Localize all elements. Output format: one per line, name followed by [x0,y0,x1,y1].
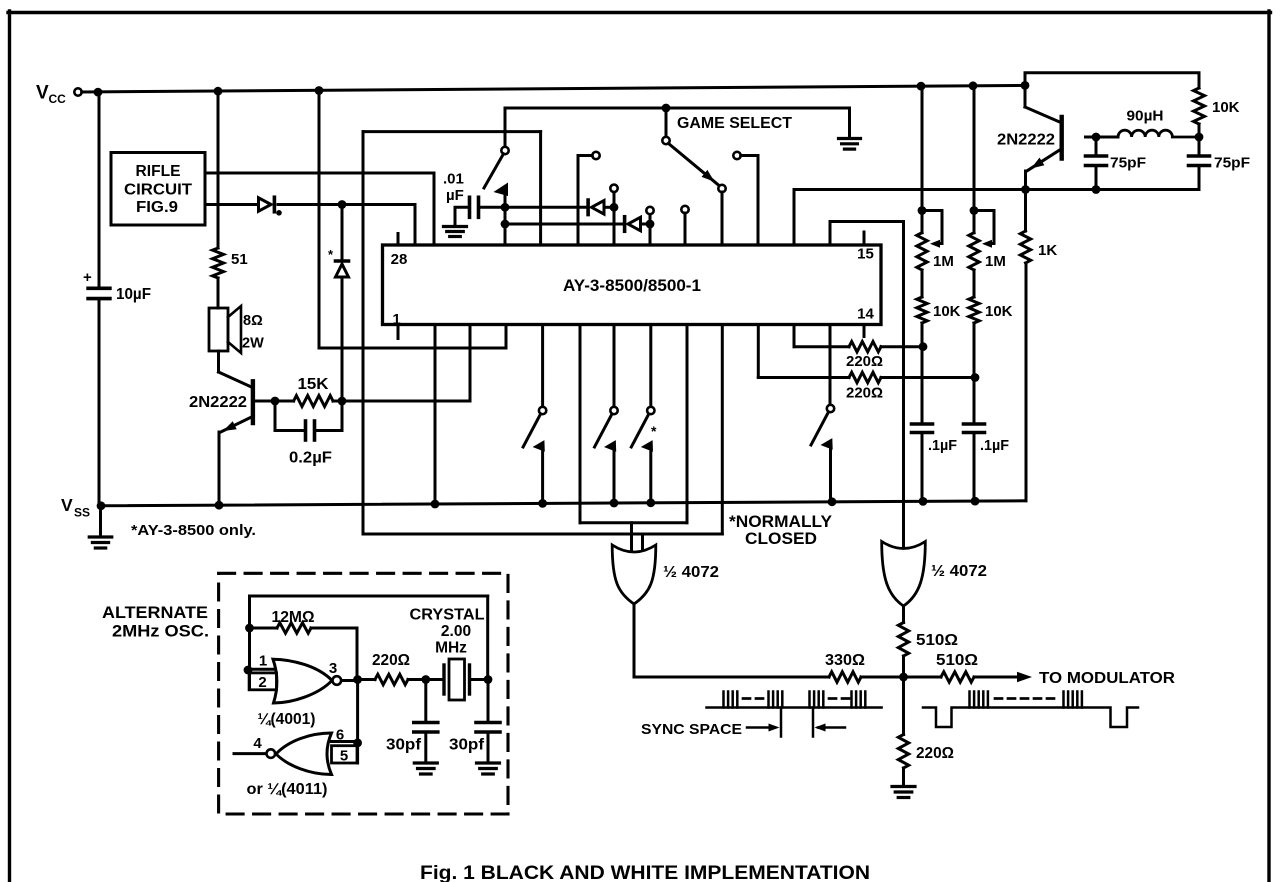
svg-text:10K: 10K [1212,99,1240,116]
svg-text:1M: 1M [933,253,954,270]
svg-text:1: 1 [392,311,400,328]
svg-text:½ 4072: ½ 4072 [663,564,719,581]
svg-text:15: 15 [857,246,874,263]
svg-text:2W: 2W [242,336,264,352]
svg-text:10K: 10K [985,303,1013,320]
svg-text:AY-3-8500/8500-1: AY-3-8500/8500-1 [563,276,701,295]
svg-text:2MHz OSC.: 2MHz OSC. [112,623,209,641]
svg-text:.01: .01 [443,171,464,188]
svg-text:.1µF: .1µF [928,437,957,454]
svg-text:CIRCUIT: CIRCUIT [124,182,193,199]
svg-text:CRYSTAL: CRYSTAL [410,607,485,624]
svg-text:51: 51 [231,251,248,268]
svg-text:*: * [651,423,657,439]
svg-text:0.2µF: 0.2µF [289,450,332,467]
svg-text:.1µF: .1µF [980,437,1009,454]
svg-text:SYNC SPACE: SYNC SPACE [641,721,742,738]
svg-text:V: V [36,83,49,104]
svg-text:SS: SS [74,506,90,520]
svg-text:¼(4001): ¼(4001) [258,711,316,728]
svg-text:75pF: 75pF [1214,155,1250,172]
svg-text:4: 4 [253,735,262,752]
svg-text:8Ω: 8Ω [243,313,263,329]
svg-text:90µH: 90µH [1127,108,1164,125]
svg-text:V: V [61,495,73,515]
svg-text:3: 3 [329,660,337,677]
svg-text:15K: 15K [298,376,330,393]
svg-text:ALTERNATE: ALTERNATE [102,604,208,622]
svg-text:30pf: 30pf [386,737,422,754]
svg-text:2: 2 [258,674,266,691]
svg-text:CC: CC [49,92,67,106]
svg-text:2N2222: 2N2222 [997,132,1055,149]
svg-text:5: 5 [340,748,348,765]
svg-text:*AY-3-8500 only.: *AY-3-8500 only. [131,522,256,539]
svg-text:330Ω: 330Ω [825,652,865,669]
svg-text:2.00: 2.00 [441,623,471,640]
svg-text:6: 6 [336,727,344,744]
svg-text:220Ω: 220Ω [372,652,410,669]
svg-text:*NORMALLY: *NORMALLY [729,513,832,531]
svg-text:TO MODULATOR: TO MODULATOR [1039,670,1175,687]
svg-text:220Ω: 220Ω [916,745,954,762]
svg-text:28: 28 [391,251,408,268]
svg-text:½ 4072: ½ 4072 [931,563,987,580]
svg-text:220Ω: 220Ω [846,385,883,402]
svg-text:GAME SELECT: GAME SELECT [677,115,793,132]
svg-text:1M: 1M [985,253,1006,270]
svg-text:1K: 1K [1038,242,1057,259]
svg-text:2N2222: 2N2222 [189,394,247,411]
svg-text:+: + [83,269,92,286]
svg-text:Fig. 1 BLACK AND WHITE IMPLEME: Fig. 1 BLACK AND WHITE IMPLEMENTATION [420,862,870,882]
svg-text:510Ω: 510Ω [936,652,978,669]
svg-text:14: 14 [857,306,874,323]
svg-text:CLOSED: CLOSED [745,530,817,548]
svg-text:12MΩ: 12MΩ [272,609,315,626]
svg-text:FIG.9: FIG.9 [136,199,178,216]
svg-text:µF: µF [446,187,464,204]
svg-text:30pf: 30pf [449,737,485,754]
svg-text:RIFLE: RIFLE [136,163,181,180]
svg-text:10K: 10K [933,303,961,320]
svg-text:75pF: 75pF [1110,155,1146,172]
svg-text:MHz: MHz [435,640,467,657]
svg-text:1: 1 [259,653,267,670]
svg-text:220Ω: 220Ω [846,353,883,370]
svg-text:510Ω: 510Ω [916,632,958,649]
svg-text:or ¼(4011): or ¼(4011) [247,781,328,798]
svg-text:10µF: 10µF [116,286,151,303]
